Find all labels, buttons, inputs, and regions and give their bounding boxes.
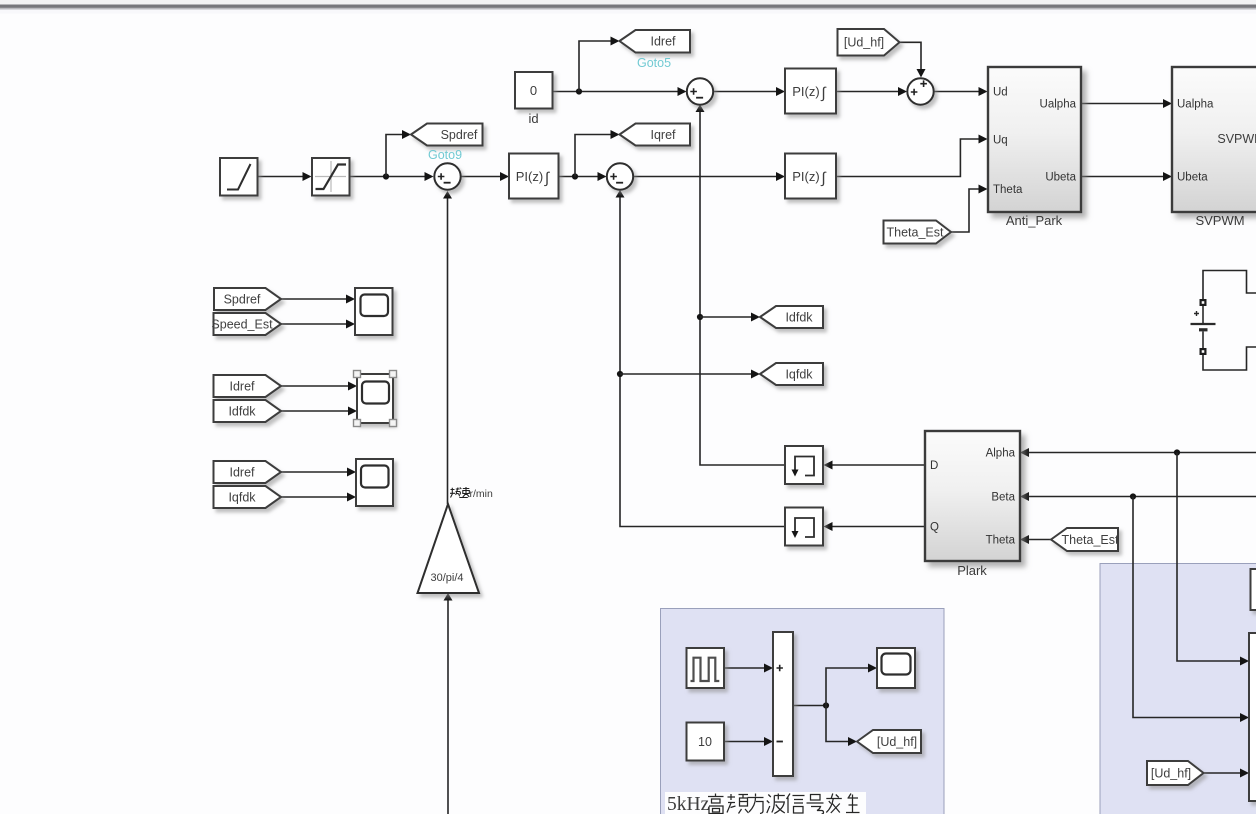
svg-text:Ubeta: Ubeta [1045, 172, 1076, 184]
observer block top (partial at right edge) [1251, 569, 1256, 610]
hf sum bar block [773, 632, 793, 776]
svg-text:0: 0 [530, 83, 537, 98]
node junction id ref [576, 88, 582, 94]
saturation block [312, 158, 350, 196]
selection handles scope2 [354, 371, 397, 427]
annotation glyph su [459, 487, 469, 498]
wire 0 const to sum d [553, 91, 678, 93]
annotation glyph zhuan [450, 488, 460, 498]
annotation glyph pin [727, 794, 749, 814]
node junction sat-out [383, 173, 389, 179]
svg-text:Beta: Beta [991, 492, 1015, 504]
constant 0 block [515, 72, 553, 109]
svg-text:[Ud_hf]: [Ud_hf] [1151, 767, 1191, 781]
wire battery top to converter [1203, 271, 1256, 300]
wire branch up to Iqref goto [575, 135, 611, 177]
svg-text:SVPWM: SVPWM [1217, 132, 1256, 146]
node junction Alpha [1174, 449, 1180, 455]
from tag Idref (scope group 3) [214, 461, 282, 483]
svg-text:Anti_Park: Anti_Park [1006, 213, 1063, 228]
goto tag Ud_hf (hf output) [857, 730, 921, 753]
svg-text:Theta_Est: Theta_Est [1062, 533, 1120, 547]
wire Plark D out to delay D [833, 464, 926, 466]
annotation glyph hao [807, 795, 824, 814]
battery symbol [1191, 306, 1216, 348]
svg-text:PI(z): PI(z) [516, 169, 543, 184]
constant 10 block [687, 723, 725, 761]
observer area background (bottom right) [1100, 564, 1256, 814]
goto tag Idfdk [760, 306, 823, 328]
wire q-feedback vertical from delay Q to sum2 minus [620, 198, 785, 527]
goto tag Iqref [620, 124, 691, 146]
wire Idref tag to scope2 [281, 385, 348, 387]
svg-text:Theta: Theta [993, 184, 1023, 196]
svg-text:D: D [930, 460, 938, 472]
scope1 speed [355, 288, 393, 335]
annotation 5kHz label background [665, 792, 866, 814]
goto tag Iqfdk [760, 363, 823, 385]
node junction Beta [1130, 493, 1136, 499]
svg-text:Theta_Est: Theta_Est [887, 226, 945, 240]
wire sum2 to PI q [634, 176, 776, 178]
svg-text:Iqfdk: Iqfdk [785, 368, 813, 382]
observer main block (partial at right edge) [1249, 633, 1256, 801]
wire saturation to sum1 with junction branch [350, 176, 425, 178]
sum junction Sd (d current error) [687, 78, 713, 104]
sum junction S2 (q current error) [607, 163, 633, 189]
from tag Speed_Est (scope group 1) [211, 313, 281, 335]
svg-text:Spdref: Spdref [441, 128, 478, 142]
scope3 q current [356, 459, 393, 506]
from tag Theta_Est (to Anti_Park) [884, 221, 952, 244]
wire PI q to Uq port [837, 139, 979, 177]
svg-text:Ud: Ud [993, 87, 1008, 99]
svg-text:Goto9: Goto9 [428, 148, 462, 162]
goto tag Idref [620, 30, 691, 53]
battery positive wire port [1200, 299, 1207, 306]
wire branch to Idfdk goto [700, 316, 751, 318]
PI q current controller block [785, 154, 836, 199]
ramp source block [220, 158, 258, 196]
annotation glyph fang [748, 794, 764, 814]
svg-text:Ubeta: Ubeta [1177, 172, 1208, 184]
wire Spdref tag to scope1 [281, 298, 346, 300]
wire Idref tag to scope3 [281, 471, 347, 473]
subsystem Anti_Park [988, 67, 1081, 212]
wire branch up to Idref goto [579, 41, 611, 92]
node junction PI speed out [572, 173, 578, 179]
node junction d-feedback [697, 314, 703, 320]
wire Beta branch down to observer [1133, 497, 1240, 718]
svg-text:Spdref: Spdref [224, 293, 261, 307]
wire Idfdk tag to scope2 [281, 410, 348, 412]
wire battery bottom to converter [1203, 347, 1256, 370]
svg-text:30/pi/4: 30/pi/4 [430, 572, 463, 584]
subsystem Plark [925, 431, 1020, 561]
node junction hf out [823, 702, 829, 708]
from tag Ud_hf (hf injection) [838, 29, 900, 56]
wire speed feedback from gain up to sum1 minus [447, 199, 449, 505]
wire d-feedback vertical from delay D to sum d minus [700, 112, 785, 465]
wire Iqfdk tag to scope3 [281, 496, 347, 498]
wire Alpha from right edge into Plark [1029, 452, 1256, 454]
wire Alpha branch down to observer [1177, 453, 1240, 662]
goto tag Spdref [411, 124, 483, 146]
subsystem SVPWM [1172, 67, 1256, 212]
faint strip under toolbar [0, 10, 1256, 14]
annotation glyph xin [787, 794, 805, 814]
wire pulse gen to hf sum [724, 667, 764, 669]
wire branch to Iqfdk goto [620, 373, 751, 375]
svg-text:r/min: r/min [470, 488, 493, 500]
from tag Idfdk (scope group 2) [214, 400, 282, 422]
toolbar dark divider line [0, 5, 1256, 8]
wire sum d to PI d [714, 91, 776, 93]
5kHz generator area background [661, 609, 945, 814]
wire Ud_hf tag down into sum hf top [900, 42, 922, 69]
sum junction S1 (speed error) [434, 163, 460, 189]
pulse generator block [687, 648, 725, 688]
annotation glyph bo [767, 794, 785, 814]
battery negative wire port [1200, 348, 1207, 355]
wire Ud_hf from tag to observer [1204, 772, 1241, 774]
from tag Idref (scope group 2) [214, 375, 282, 397]
svg-text:Speed_Est: Speed_Est [211, 318, 273, 332]
scope2 d current (selected) [357, 374, 393, 423]
wire branch up to Spdref goto [386, 135, 402, 177]
svg-text:Idfdk: Idfdk [785, 311, 813, 325]
svg-text:Uq: Uq [993, 135, 1008, 147]
wire motor speed from bottom edge into gain [447, 601, 449, 814]
annotation glyph fa [826, 794, 842, 814]
gain 30/pi/4 triangle [418, 504, 480, 593]
svg-text:Ualpha: Ualpha [1177, 99, 1214, 111]
wire Beta from right edge into Plark [1029, 496, 1256, 498]
hf scope block [877, 648, 915, 688]
svg-text:Idref: Idref [229, 466, 255, 480]
from tag Theta_Est (to Plark, mirrored) [1051, 528, 1119, 551]
wire const 10 to hf sum [724, 741, 764, 743]
svg-text:5kHz: 5kHz [667, 794, 710, 814]
wire Ubeta to SVPWM [1081, 176, 1163, 178]
unit delay D block [785, 446, 823, 484]
wire ramp to saturation [258, 176, 303, 178]
node junction q-feedback [617, 371, 623, 377]
wire Ualpha to SVPWM [1081, 103, 1163, 105]
svg-text:Alpha: Alpha [986, 448, 1016, 460]
wire Speed_Est tag to scope1 [281, 323, 346, 325]
svg-text:Plark: Plark [957, 563, 987, 578]
wire Theta_Est tag to Theta port [951, 189, 979, 232]
svg-text:SVPWM: SVPWM [1195, 213, 1244, 228]
svg-text:Idfdk: Idfdk [228, 405, 256, 419]
PI d current controller block [785, 69, 836, 114]
from tag Spdref (scope group 1) [214, 288, 281, 310]
svg-text:PI(z): PI(z) [792, 169, 819, 184]
wire sum1 to PI speed [461, 176, 500, 178]
toolbar light strip [0, 0, 1256, 5]
annotation glyph sheng [846, 794, 860, 813]
svg-text:[Ud_hf]: [Ud_hf] [877, 735, 917, 749]
svg-text:Ualpha: Ualpha [1040, 99, 1077, 111]
svg-text:id: id [528, 111, 538, 126]
wire hf branch up to scope [826, 668, 868, 706]
svg-text:Iqref: Iqref [650, 128, 676, 142]
svg-text:Q: Q [930, 522, 939, 534]
svg-text:Theta: Theta [986, 535, 1016, 547]
wire hf branch down to Ud_hf goto [826, 706, 848, 742]
svg-text:PI(z): PI(z) [792, 84, 819, 99]
wire PI d to sum hf [837, 91, 899, 93]
svg-text:10: 10 [698, 735, 712, 749]
svg-text:Idref: Idref [229, 380, 255, 394]
svg-text:Idref: Idref [650, 35, 676, 49]
wire hf sum out with junction [793, 705, 826, 707]
annotation glyph gao [708, 794, 724, 814]
PI speed controller block [509, 154, 559, 199]
wire Plark Q out to delay Q [833, 526, 926, 528]
wire sum hf to Ud port [934, 91, 979, 93]
svg-text:Iqfdk: Iqfdk [228, 491, 256, 505]
wire PI speed out to sum2 [559, 176, 598, 178]
sum junction Shf (Ud + hf) [907, 78, 933, 104]
svg-text:[Ud_hf]: [Ud_hf] [844, 36, 884, 50]
wire Theta_Est tag to Plark Theta [1029, 539, 1051, 541]
unit delay Q block [785, 508, 823, 546]
from tag Iqfdk (scope group 3) [214, 486, 282, 508]
svg-text:Goto5: Goto5 [637, 56, 671, 70]
from tag Ud_hf (observer input) [1147, 761, 1204, 785]
